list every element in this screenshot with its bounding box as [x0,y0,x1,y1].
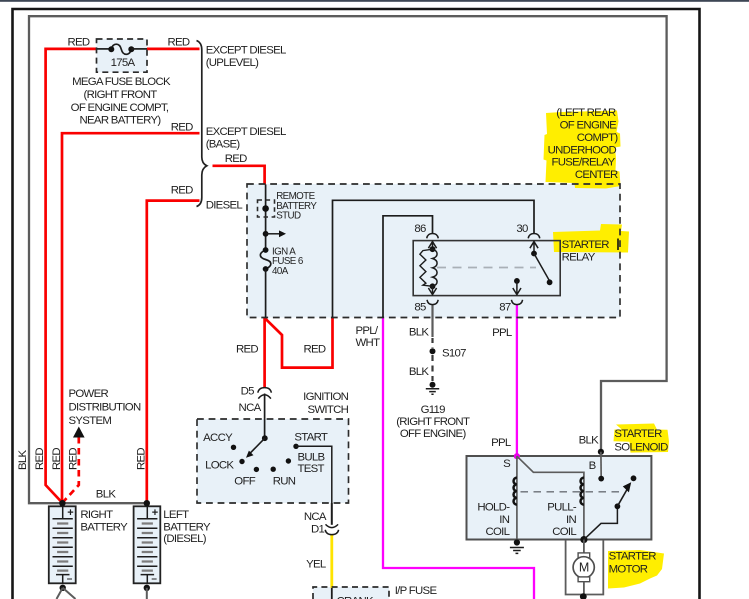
svg-text:UNDERHOOD: UNDERHOOD [548,144,617,156]
ignition switch box fill [197,419,349,503]
svg-text:RED: RED [304,343,326,355]
solenoid fixed contact dot [631,475,637,481]
motor brush top [578,553,590,558]
wire RED jog joining fuse6 output to relay pin30 feed [265,317,333,367]
relay linkage dashed line [437,267,536,269]
brace grouping the three RED feeds [197,41,207,207]
wire black crank fuse stub [331,588,333,599]
connector cup pin 86 [427,234,439,239]
mega fuse block fill [97,39,148,72]
svg-text:NCA: NCA [239,402,262,414]
svg-text:85: 85 [414,302,426,314]
svg-text:NCA: NCA [304,511,327,523]
connector cup pin 85 [427,300,438,305]
highlight starter relay label [553,224,629,253]
svg-text:MEGA FUSE BLOCK: MEGA FUSE BLOCK [72,76,171,88]
mega fuse block dashed border [97,39,148,72]
svg-text:COIL: COIL [486,526,510,538]
fuse F 175A lead in [97,48,111,50]
svg-text:BLK: BLK [96,489,117,501]
wire RED DIESEL: brace to left and down to left battery [147,201,200,503]
STARTER RELAY box [413,241,560,296]
solenoid linkage dashed line [521,491,623,493]
svg-text:COIL: COIL [552,526,576,538]
left battery border [134,506,161,583]
wire D5 to ignition switch pivot [264,394,266,439]
svg-text:CRANK: CRANK [337,595,374,599]
wire fuse 6 to box bottom [265,269,267,317]
svg-text:PPL/: PPL/ [356,325,379,337]
svg-text:PPL: PPL [491,437,511,449]
svg-text:RUN: RUN [273,475,296,487]
wire YEL ignition switch D1 to crank fuse [330,534,333,588]
svg-text:STARTER: STARTER [562,239,610,251]
svg-text:NEAR BATTERY): NEAR BATTERY) [80,115,162,127]
svg-text:STARTER: STARTER [609,550,657,562]
relay coil winding [433,249,438,286]
contact dot LOCK [239,459,244,464]
svg-text:STARTER: STARTER [614,428,662,440]
svg-text:BLK: BLK [17,449,29,470]
svg-text:DISTRIBUTION: DISTRIBUTION [69,401,141,413]
wire RED fuse-block feed (EXCEPT DIESEL UPLEVEL): mega fuse to left, down to right battery junction [46,49,97,503]
svg-text:+: + [67,507,73,519]
relay switch pivot dot (pin30 side) [531,251,537,257]
svg-text:PPL: PPL [492,327,512,339]
relay coil node bottom [430,283,436,289]
node right battery positive [59,500,65,506]
fuse F 175A element [111,44,131,54]
wire left battery negative lead [146,588,148,599]
svg-text:BLK: BLK [409,366,430,378]
connector D1 female cup [325,530,338,535]
left battery fill [134,506,161,583]
stray mark after STARTER [617,239,619,251]
solenoid switch pivot dot [615,503,621,509]
wire BLK ignition START output below box to D1 [331,503,333,525]
contact dot BULB TEST [286,458,291,463]
svg-text:YEL: YEL [306,559,326,571]
motor bottom node dot [580,593,587,599]
motor brush bottom [578,577,590,582]
underhood fuse/relay center dashed border [247,184,620,318]
connector cup pin 30 [528,234,540,239]
svg-text:START: START [294,432,328,444]
svg-text:(UPLEVEL): (UPLEVEL) [206,57,259,69]
svg-text:CENTER: CENTER [575,169,618,181]
svg-text:(RIGHT FRONT: (RIGHT FRONT [396,416,470,428]
wire relay pin30 feed (top horizontal in box) [333,200,535,317]
fuse 6 terminal dot bottom [263,266,269,272]
remote battery stud dashed square [258,200,275,217]
svg-text:LEFT: LEFT [163,509,189,521]
wire RED mega fuse output to brace [147,48,200,51]
svg-text:OFF: OFF [234,475,255,487]
wire S through hold-in coil to ground [516,456,518,542]
svg-text:(DIESEL): (DIESEL) [163,533,206,545]
svg-text:BLK: BLK [409,327,430,339]
svg-text:175A: 175A [111,57,136,69]
solenoid switch arm with arrow toward fixed contact [617,489,627,506]
fuse terminal dot left [108,46,114,52]
highlight underhood label block [544,111,621,189]
crank fuse box fill [313,587,389,599]
wire BLK relay pin85 to splice S107 [431,304,433,337]
svg-text:IGNITION: IGNITION [303,391,348,403]
right battery border [49,506,76,583]
fuse IGN A FUSE 6 40A element [260,250,271,269]
relay switch arm (open) [534,254,550,282]
motor field loop [566,540,604,595]
crank fuse dashed border [313,587,389,599]
svg-text:DIESEL: DIESEL [206,200,243,212]
solenoid switch arm path [584,506,618,539]
fuse 6 terminal dot top [263,247,269,253]
starter solenoid box border [467,456,652,540]
connector D5 female cup [258,388,272,393]
svg-text:86: 86 [414,223,426,235]
wire PPL/WHT from relay center to bottom (crank fuse area) [383,317,534,599]
svg-text:(LEFT REAR: (LEFT REAR [556,107,616,119]
svg-text:BATTERY: BATTERY [80,522,128,534]
svg-text:MOTOR: MOTOR [609,564,648,576]
svg-text:S107: S107 [442,348,466,360]
left battery plates [137,506,157,583]
wire BLK dashed into S107 [431,338,433,348]
relay resistor (parallel with coil) [420,249,433,286]
pin 85 wire with arrow out of relay [428,286,436,294]
svg-text:RED: RED [68,37,90,49]
svg-text:(BASE): (BASE) [206,139,241,151]
svg-text:40A: 40A [272,266,289,277]
svg-text:STUD: STUD [276,211,301,222]
splice S107 [430,348,436,354]
svg-text:EXCEPT DIESEL: EXCEPT DIESEL [206,45,286,57]
svg-text:RED: RED [67,448,79,470]
svg-text:OF ENGINE COMPT,: OF ENGINE COMPT, [71,102,169,114]
svg-text:TEST: TEST [298,463,325,475]
svg-text:RED: RED [51,448,63,470]
pin 86 arrow into relay [428,242,436,250]
svg-text:IN: IN [499,514,509,526]
hold-in coil winding [514,478,517,505]
svg-text:D1: D1 [311,523,325,535]
svg-text:RED: RED [171,185,193,197]
svg-text:POWER: POWER [69,388,109,400]
svg-text:G119: G119 [421,404,446,416]
svg-text:OF ENGINE: OF ENGINE [560,120,617,132]
wire right battery negative leads [57,588,76,599]
underhood fuse/relay center box fill [247,184,620,318]
navy top page edge [0,0,749,2]
contact dot START [293,444,298,449]
pin 87 wire with arrow out of relay [513,281,521,295]
solenoid plunger junction dot [580,536,587,543]
node left battery positive [144,500,150,506]
node junction with branch arrow [263,231,269,237]
wire RED EXCEPT DIESEL (BASE): brace to left and down to right battery [62,133,200,503]
svg-text:LOCK: LOCK [205,460,234,472]
svg-text:B: B [589,460,596,472]
svg-text:COMPT): COMPT) [577,132,619,144]
wire BLK battery positive bus: left battery + up left edge, across top, down right side to solenoid B [29,16,667,503]
svg-text:FUSE/RELAY: FUSE/RELAY [551,157,615,169]
svg-text:WHT: WHT [356,337,381,349]
svg-text:+: + [152,507,158,519]
svg-text:RED: RED [225,153,247,165]
wire BLK dashed S107 to ground G119 [431,355,433,381]
wire relay pin86 feed and PPL/WHT drop [383,216,433,317]
svg-text:I/P FUSE: I/P FUSE [395,585,438,597]
wire S to pull-in coil [517,456,584,539]
svg-text:RED: RED [236,343,258,355]
contact dot OFF [254,467,259,472]
connector D1 male arc [326,524,339,527]
svg-text:BLK: BLK [579,434,600,446]
fuse F 175A lead out [131,48,147,50]
motor armature wire top [583,540,585,553]
relay switch arm end dot [547,279,553,285]
svg-text:RED: RED [34,448,46,470]
arrow power distribution (black arrowhead) [73,427,85,438]
fuse terminal dot right [128,46,134,52]
svg-text:ACCY: ACCY [203,432,233,444]
S terminal dot (PPL) [514,453,520,459]
relay pin 87 contact dot [514,278,520,284]
svg-text:RED: RED [135,448,147,470]
node left battery negative [144,585,150,591]
branch arrowhead [279,230,286,237]
svg-text:RELAY: RELAY [562,251,596,263]
highlight starter motor label [608,550,664,589]
svg-text:SOLENOID: SOLENOID [614,441,668,453]
switch lever toward LOCK [250,438,265,454]
starter solenoid box fill [467,456,652,540]
wire RED fuse6 output below box to connector D5 [263,317,266,388]
relay coil node top [430,246,436,252]
ground below hold-in coil [514,539,520,545]
svg-text:PULL-: PULL- [547,502,577,514]
highlight starter solenoid label [614,424,670,453]
svg-text:(RIGHT FRONT: (RIGHT FRONT [83,89,157,101]
branch arrow wire [266,233,281,235]
svg-text:RED: RED [168,37,190,49]
motor M circle [573,557,594,578]
svg-text:D5: D5 [241,385,255,397]
remote battery stud dot [262,205,269,212]
svg-text:HOLD-: HOLD- [477,502,510,514]
svg-text:RIGHT: RIGHT [80,509,113,521]
pull-in coil winding [581,478,584,505]
connector cup pin 87 [511,300,522,305]
contact dot RUN [271,467,276,472]
svg-text:RED: RED [171,122,193,134]
svg-text:87: 87 [499,302,511,314]
ground G119 [430,382,436,388]
pin 30 arrow into relay [530,242,538,254]
svg-text:OFF ENGINE): OFF ENGINE) [400,428,467,440]
wire RED brace output to remote battery stud [213,166,265,185]
B terminal dot [598,449,604,455]
ignition switch dashed border [197,419,349,503]
svg-text:SWITCH: SWITCH [307,404,348,416]
svg-text:IN: IN [566,514,576,526]
right battery plates [53,506,73,583]
wire PPL relay pin87 to solenoid S terminal [516,304,518,456]
right battery fill [49,506,76,583]
wire START contact to box bottom [296,446,332,503]
switch pivot dot [262,435,268,441]
wire remote battery stud to fuse 6 (black, inside box) [265,185,267,251]
svg-text:BATTERY: BATTERY [163,522,211,534]
svg-text:S: S [503,458,511,470]
wire RED dashed power distribution feed [64,437,79,502]
node right battery negative [60,585,66,591]
contact dot ACCY [231,445,236,450]
wire B terminal into box [600,452,602,479]
motor armature wire bottom [583,582,585,599]
svg-text:M: M [579,561,589,575]
connector D5 male arc [258,395,271,399]
svg-text:30: 30 [516,223,528,235]
svg-text:EXCEPT DIESEL: EXCEPT DIESEL [206,126,286,138]
B contact dot [598,476,604,482]
svg-text:SYSTEM: SYSTEM [69,415,112,427]
svg-text:BULB: BULB [298,451,325,463]
